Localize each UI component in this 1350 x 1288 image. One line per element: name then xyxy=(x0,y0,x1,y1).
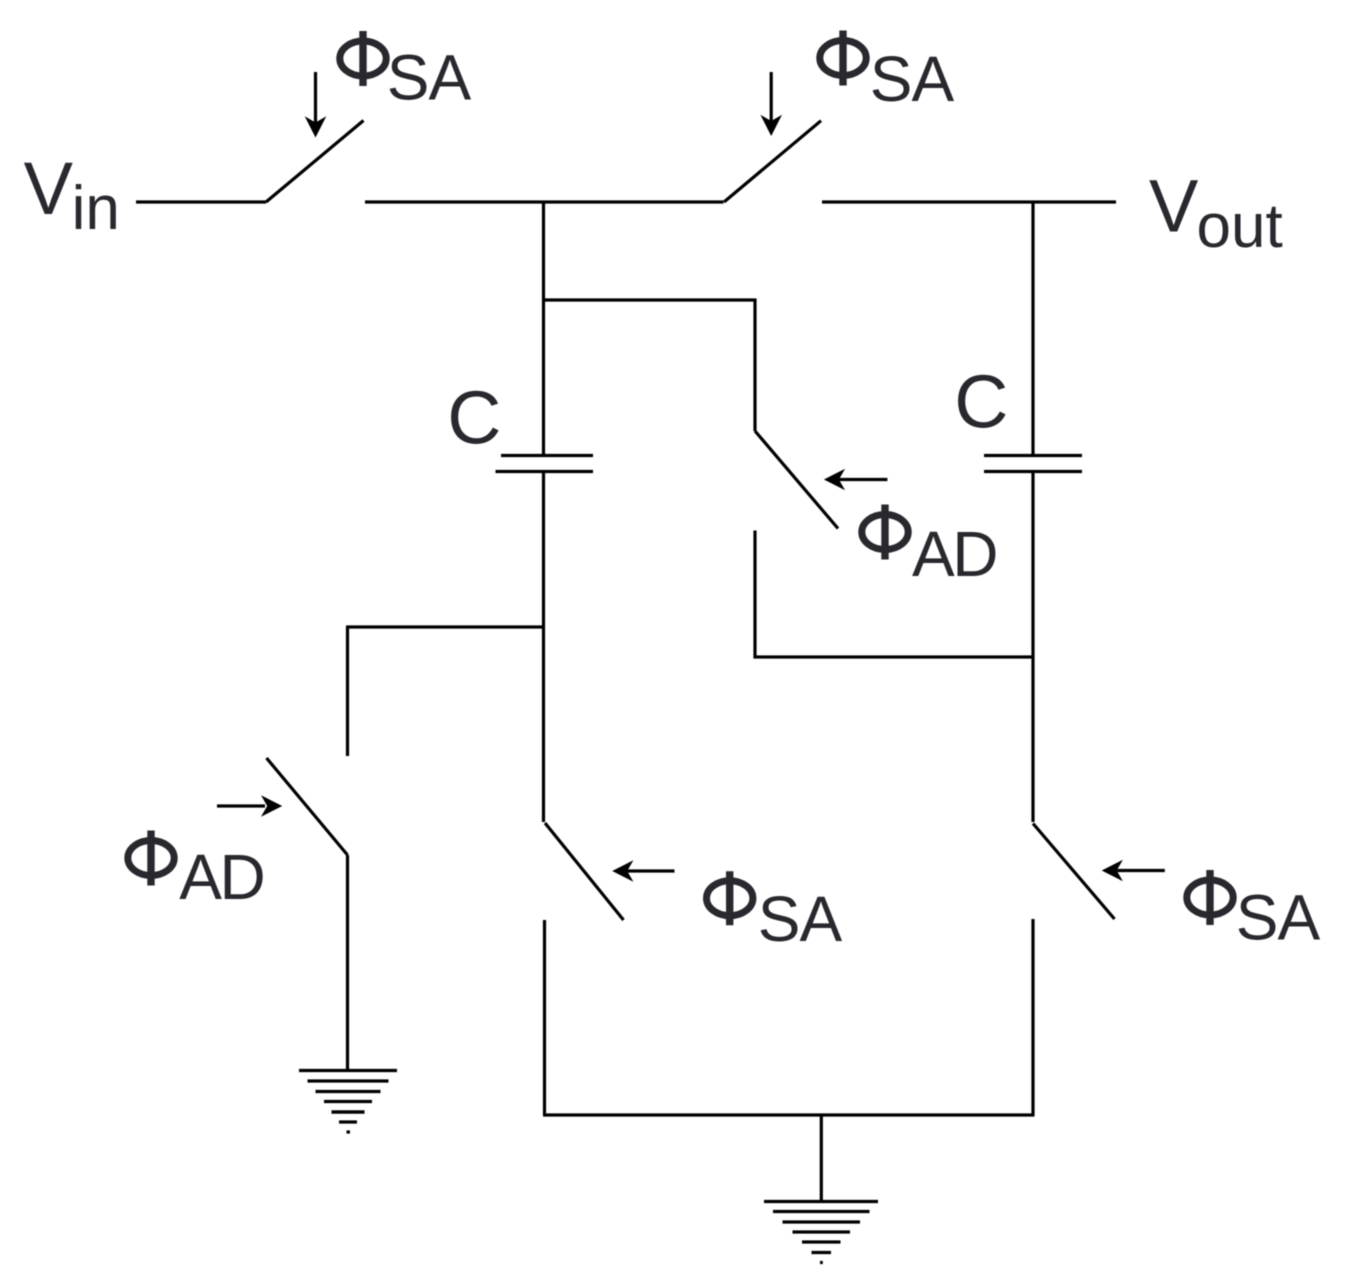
arrow for S3 (left) xyxy=(832,478,887,481)
wire S5 bottom contact xyxy=(543,920,546,1115)
wire left branch down from node A xyxy=(542,201,545,455)
label phi_SA for S6 xyxy=(1187,870,1321,953)
wire Vin lead xyxy=(136,200,266,203)
capacitor C1 bottom plate xyxy=(496,470,594,473)
wire S4 bottom contact to ground xyxy=(346,855,349,1070)
wire node A to S3 top contact xyxy=(544,300,756,431)
wire S3 bottom contact to node B xyxy=(755,531,1032,658)
svg-text:in: in xyxy=(72,174,120,243)
arrow for S4 (right) xyxy=(217,804,265,807)
capacitor C1 top plate xyxy=(501,454,593,457)
switch S5 phiSA blade (bottom-middle) xyxy=(545,823,624,920)
arrowhead S6 xyxy=(1102,860,1123,882)
arrowhead S2 xyxy=(760,115,782,136)
label Vout xyxy=(1149,164,1283,261)
ground symbol bottom xyxy=(764,1202,878,1263)
switch S2 phiSA blade (top-right) xyxy=(724,121,821,202)
arrowhead S1 xyxy=(305,116,327,137)
switch S1 phiSA blade (top-left) xyxy=(266,121,364,203)
label phi_SA for S2 xyxy=(820,31,955,116)
arrow for S5 (left) xyxy=(627,869,675,872)
svg-text:C: C xyxy=(954,359,1008,443)
svg-text:C: C xyxy=(447,375,501,459)
svg-text:SA: SA xyxy=(870,43,955,115)
wire left branch mid segment xyxy=(542,473,545,822)
label phi_SA for S1 xyxy=(340,31,472,114)
label phi_AD for S4 xyxy=(128,831,264,913)
svg-text:SA: SA xyxy=(1236,881,1321,953)
arrowhead S4 xyxy=(261,795,282,817)
svg-text:AD: AD xyxy=(912,518,996,590)
ground symbol left xyxy=(299,1071,397,1133)
arrow for S2 (down) xyxy=(770,72,773,123)
label phi_SA for S5 xyxy=(707,871,843,955)
switch S3 phiAD blade (middle) xyxy=(755,431,838,529)
label Vin xyxy=(24,147,120,243)
wire right branch down from Vout node xyxy=(1031,201,1034,455)
switch S4 phiAD blade (left ground switch) xyxy=(267,758,348,855)
wire junction to S4 top contact xyxy=(346,625,544,628)
svg-text:SA: SA xyxy=(387,42,472,114)
wire top node A segment xyxy=(365,200,724,203)
wire bottom node to ground xyxy=(543,1113,1035,1116)
arrowhead S5 xyxy=(612,860,633,882)
svg-text:V: V xyxy=(1149,164,1199,247)
label phi_AD for S3 xyxy=(862,505,996,591)
wire right branch mid segment xyxy=(1031,473,1034,822)
wire S6 bottom contact xyxy=(1031,919,1034,1115)
wire ground stub xyxy=(820,1115,823,1200)
arrow for S6 (left) xyxy=(1117,869,1165,872)
capacitor C2 top plate xyxy=(984,454,1082,457)
arrowhead S3 xyxy=(824,469,845,491)
svg-text:out: out xyxy=(1197,192,1283,261)
svg-text:SA: SA xyxy=(758,883,843,955)
capacitor C2 bottom plate xyxy=(984,470,1082,473)
svg-text:V: V xyxy=(24,147,74,230)
wire S4 top contact xyxy=(346,627,349,756)
arrow for S1 (down) xyxy=(314,72,317,124)
switch S6 phiSA blade (bottom-right) xyxy=(1033,824,1115,920)
svg-text:AD: AD xyxy=(179,841,263,913)
wire top right to Vout xyxy=(822,200,1116,203)
